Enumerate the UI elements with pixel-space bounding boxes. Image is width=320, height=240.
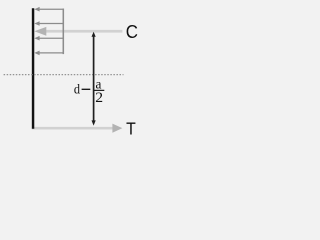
stress arrow 2: [34, 21, 63, 26]
neutral axis dotted line: [4, 74, 124, 76]
dimension arrowhead down: [92, 120, 96, 125]
tension force T arrow: [32, 124, 123, 133]
svg-text:C: C: [126, 21, 138, 42]
dimension line shaft: [93, 34, 95, 122]
stress arrow 4: [34, 51, 63, 56]
minus sign: [82, 88, 91, 90]
dimension arrowhead up: [92, 32, 96, 37]
stress block bracket line: [62, 9, 64, 55]
svg-text:2: 2: [95, 90, 103, 105]
svg-text:a: a: [96, 76, 102, 91]
section face line: [32, 8, 34, 129]
stress arrow 3: [34, 36, 63, 41]
svg-text:d: d: [74, 81, 81, 97]
stress arrow 1: [34, 7, 63, 12]
fraction bar: [94, 89, 104, 91]
svg-text:T: T: [126, 118, 136, 138]
compression resultant force C arrow: [34, 27, 122, 36]
